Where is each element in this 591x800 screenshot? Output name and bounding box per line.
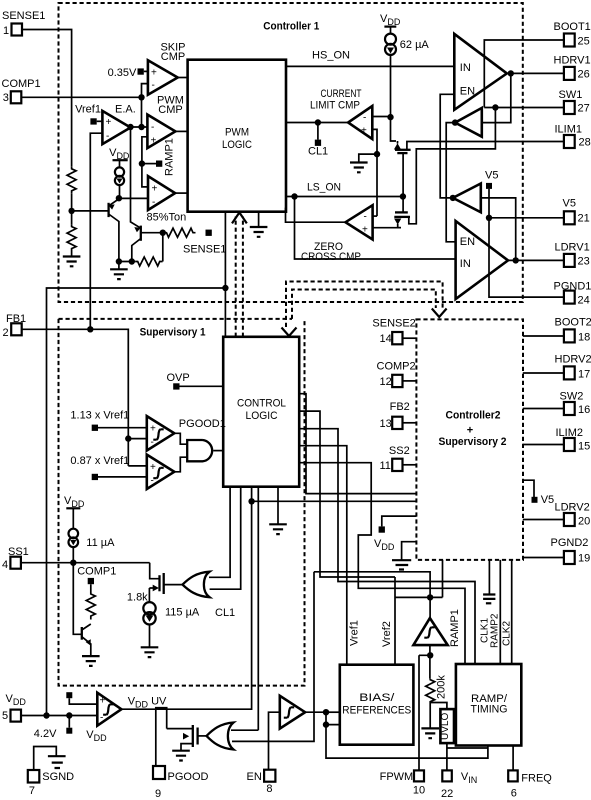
transistor Q1	[107, 203, 109, 217]
dashed bus to Controller2 (horizontal pair)	[286, 282, 443, 328]
wire control logic out 3	[299, 429, 475, 664]
svg-text:+: +	[467, 425, 473, 437]
svg-text:CL1: CL1	[308, 146, 328, 158]
svg-text:Supervisory 2: Supervisory 2	[439, 436, 507, 448]
wire 0.35V to skip cmp	[144, 70, 148, 72]
BIAS/REFERENCES block	[340, 665, 414, 745]
wire Q1/Q2 common to ground + resistor	[119, 261, 136, 263]
wire HDRV1 to INV1 input	[482, 73, 511, 122]
svg-text:+: +	[361, 126, 367, 137]
wire Q2 base to SENSE1 node	[141, 232, 165, 234]
wire EN pin to buffer	[269, 712, 280, 770]
net SENSE1 square	[206, 230, 212, 236]
svg-text:PGOOD1: PGOOD1	[179, 418, 226, 430]
gate OR PGOOD	[207, 723, 234, 750]
svg-text:V5: V5	[563, 198, 576, 210]
ground Q3	[82, 656, 100, 666]
wire control logic out 2	[299, 411, 395, 665]
svg-text:11 µA: 11 µA	[86, 537, 115, 549]
wire FPWM riser	[419, 655, 430, 770]
svg-text:3: 3	[3, 92, 9, 104]
inverter U-INV2 (LDRV sense)	[453, 184, 481, 213]
svg-text:CMP: CMP	[158, 104, 182, 116]
node SW1	[492, 104, 498, 110]
svg-text:LS_ON: LS_ON	[307, 181, 341, 193]
ground droop network	[118, 262, 120, 270]
svg-text:EN: EN	[460, 85, 475, 97]
svg-text:COMP1: COMP1	[2, 78, 41, 90]
svg-text:V5: V5	[485, 170, 498, 182]
wire BOOT2 stub	[523, 335, 564, 337]
svg-text:15: 15	[578, 441, 590, 453]
node COMP1/EA junction	[138, 94, 144, 100]
wire COMP1 node to E.A. output	[141, 97, 143, 127]
buffer RAMP1 (points up)	[413, 618, 447, 645]
svg-text:CL1: CL1	[215, 607, 235, 619]
wire 62uA down to FET	[391, 55, 397, 141]
wire INV1 out to EN of low driver	[446, 123, 455, 242]
svg-text:62 µA: 62 µA	[400, 39, 430, 51]
transistor Q3 (SS discharge)	[81, 627, 83, 640]
node control logic riser	[222, 285, 228, 291]
svg-text:V5: V5	[541, 494, 554, 506]
node FB1/EA feedback	[87, 326, 93, 332]
arrow into Controller2 top	[432, 309, 447, 318]
svg-text:85%Ton: 85%Ton	[147, 212, 187, 224]
svg-text:-: -	[151, 122, 154, 133]
svg-text:TIMING: TIMING	[471, 704, 508, 716]
svg-text:7: 7	[29, 785, 35, 797]
svg-text:+: +	[150, 424, 156, 435]
svg-text:2: 2	[3, 327, 9, 339]
svg-text:23: 23	[578, 256, 590, 268]
svg-text:CURRENT: CURRENT	[321, 88, 362, 100]
comparator UVP CMP (0.87)	[147, 455, 175, 489]
wire CLK2 from Controller2	[511, 560, 513, 664]
wire PGND1 from driver ground	[489, 218, 564, 297]
wire zero cross + input to FET source	[373, 227, 401, 229]
net 4.2V square	[66, 692, 72, 698]
wire V5 to pin	[489, 189, 564, 218]
wire RAMP1 vertical to PWM CMP + and 85% cmp +	[142, 137, 148, 187]
svg-text:21: 21	[578, 213, 590, 225]
svg-text:8: 8	[266, 783, 272, 795]
svg-text:REFERENCES: REFERENCES	[342, 705, 411, 717]
current source I-115uA	[148, 588, 150, 602]
svg-text:COMP1: COMP1	[77, 566, 116, 578]
wire E.A. output down to Q2	[131, 127, 141, 228]
svg-text:BOOT1: BOOT1	[554, 21, 591, 33]
svg-text:5: 5	[2, 710, 8, 722]
svg-text:22: 22	[441, 788, 453, 800]
ground current limit	[359, 154, 377, 162]
svg-text:+: +	[106, 117, 112, 128]
Controller2 + Supervisory 2 dashed box	[416, 319, 523, 560]
svg-text:LIMIT CMP: LIMIT CMP	[310, 100, 360, 112]
wire maze horizontal to buffer	[314, 572, 430, 618]
ground hook at Controller2	[402, 542, 417, 560]
svg-text:BIAS/: BIAS/	[359, 692, 395, 704]
wire UV node to Controller2	[252, 500, 417, 502]
svg-text:19: 19	[578, 553, 590, 565]
resistor 200k	[426, 679, 435, 703]
wire LDRV1 output	[508, 259, 564, 261]
svg-text:+: +	[362, 225, 368, 236]
wire current limit output to PWM LOGIC	[286, 122, 348, 124]
wire maze to buffer input 2	[395, 560, 443, 597]
svg-text:11: 11	[380, 460, 391, 472]
wire Vref1 to E.A. +	[97, 120, 103, 122]
wire control logic bottom to PGOOD gate	[257, 487, 259, 731]
inverter U-INV1 (HDRV sense)	[455, 108, 482, 137]
svg-text:4.2V: 4.2V	[34, 728, 57, 740]
wire HDRV2 stub	[523, 372, 564, 374]
wire zero cross output to PWM LOGIC	[286, 208, 346, 223]
svg-text:ILIM1: ILIM1	[555, 124, 583, 136]
svg-text:PWM: PWM	[225, 127, 249, 139]
svg-text:Controller2: Controller2	[446, 409, 501, 421]
wire control logic out 1	[299, 394, 416, 494]
power VDD hook at Controller2	[382, 516, 417, 526]
comparator 85%Ton CMP	[148, 176, 175, 210]
wire LS_ON	[286, 196, 403, 198]
node INV1 out	[452, 119, 458, 125]
svg-text:CROSS CMP: CROSS CMP	[301, 251, 361, 263]
current source I-62uA	[390, 27, 392, 34]
svg-text:HDRV1: HDRV1	[554, 55, 591, 67]
svg-text:Vref1: Vref1	[349, 620, 361, 646]
net VDD square below	[68, 716, 70, 728]
wire OVP to control logic	[180, 385, 224, 387]
wire LDRV2 stub	[523, 519, 564, 521]
wire E.A. inverting feedback	[90, 133, 102, 329]
svg-text:FPWM: FPWM	[380, 771, 414, 783]
svg-text:IN: IN	[460, 258, 471, 270]
wire BOOT1	[484, 40, 564, 108]
svg-text:Controller 1: Controller 1	[263, 21, 319, 33]
svg-text:LOGIC: LOGIC	[246, 410, 278, 422]
svg-text:-: -	[364, 212, 367, 223]
wire LS_ON drop to IN of low driver	[295, 197, 456, 260]
svg-text:6: 6	[511, 788, 517, 800]
svg-text:EN: EN	[247, 771, 262, 783]
wire E.A. output to PWM CMP	[131, 126, 148, 128]
resistor R-sense1 (to SENSE1 square)	[165, 228, 196, 237]
svg-text:RAMP1: RAMP1	[449, 609, 461, 647]
transistor M1 (high sample FET)	[394, 143, 401, 149]
wire HDRV1 output	[507, 72, 564, 74]
wire zero cross - input	[373, 215, 377, 217]
svg-text:14: 14	[380, 333, 392, 345]
wire control logic to PWM logic vertical	[224, 212, 226, 337]
wire SENSE1 to divider	[22, 30, 72, 167]
transistor Q2	[140, 226, 142, 241]
svg-text:RAMP1: RAMP1	[164, 138, 176, 176]
svg-text:20: 20	[578, 516, 590, 528]
wire COMP1	[21, 96, 141, 98]
svg-text:18: 18	[578, 332, 590, 344]
svg-text:+: +	[151, 68, 157, 79]
net COMP1 square over resistor	[88, 578, 94, 584]
wire control logic out 5	[299, 463, 465, 664]
wire SS1	[21, 562, 150, 564]
svg-text:9: 9	[155, 788, 161, 800]
svg-text:E.A.: E.A.	[115, 104, 136, 116]
wire EN to ramp/timing (second)	[326, 725, 488, 748]
wire EN to BIAS	[326, 711, 340, 713]
wire control logic bottom UV riser	[121, 487, 251, 710]
svg-text:SGND: SGND	[42, 771, 74, 783]
svg-text:1.13 x Vref1: 1.13 x Vref1	[70, 410, 129, 422]
wire RAMP2 from Controller2	[499, 560, 501, 664]
svg-text:LDRV1: LDRV1	[555, 242, 590, 254]
wire divider mid to Q1 base	[72, 210, 109, 212]
wire SKIP CMP inverting from COMP1 node	[142, 84, 148, 98]
comparator OVP CMP (1.13)	[147, 416, 175, 450]
wire buffer output	[429, 645, 431, 679]
svg-text:Vref2: Vref2	[381, 621, 393, 647]
wire FB1 to window comparators	[128, 439, 147, 466]
svg-text:+: +	[150, 462, 156, 473]
svg-text:10: 10	[413, 784, 425, 796]
wire SW2 stub	[523, 408, 564, 410]
svg-text:24: 24	[578, 295, 590, 307]
PWM LOGIC block U-PWM	[188, 60, 286, 212]
wire control logic bottom 2 to CL1 gate	[210, 487, 241, 590]
wire 85% cmp output	[175, 192, 188, 194]
svg-text:4: 4	[2, 559, 8, 571]
current source I-11uA	[72, 508, 74, 529]
node RAMP1	[139, 160, 145, 166]
wire EN buffer output	[305, 712, 488, 758]
wire VDD pin to UV comparator	[21, 715, 97, 717]
gate OR CL1	[183, 572, 210, 598]
wire SKIP CMP output	[178, 77, 188, 79]
wire PGND2 stub	[524, 557, 564, 559]
transistor M2 (low sample FET)	[402, 197, 404, 213]
svg-text:-: -	[152, 80, 155, 91]
svg-text:FREQ: FREQ	[521, 773, 552, 785]
wire EN of high driver from INV2 out	[440, 94, 454, 198]
capacitor CLK	[483, 595, 495, 599]
node V5 square right (near LDRV2)	[523, 480, 534, 497]
svg-text:PGOOD: PGOOD	[168, 771, 209, 783]
svg-text:EN: EN	[460, 236, 475, 248]
CONTROL LOGIC block	[223, 337, 299, 487]
svg-text:26: 26	[578, 69, 590, 81]
svg-text:CONTROL: CONTROL	[237, 397, 286, 409]
net RAMP1 square	[156, 161, 162, 167]
svg-text:OVP: OVP	[167, 372, 190, 384]
net CL1 square	[317, 123, 319, 140]
svg-text:Vref1: Vref1	[75, 104, 101, 116]
RAMP/TIMING block	[456, 664, 521, 746]
svg-text:200k: 200k	[436, 675, 448, 699]
current source I-85 (to Q1)	[119, 160, 121, 167]
driver U-LDRV (low side)	[456, 221, 508, 299]
net 0.35V square	[138, 68, 144, 74]
wire M1 drain to ILIM1	[407, 142, 564, 150]
wire CLK1 from Controller2	[488, 560, 490, 594]
buffer EN	[280, 696, 305, 729]
ground SGND	[48, 756, 66, 768]
svg-text:-: -	[363, 113, 366, 124]
svg-text:CLK2: CLK2	[502, 621, 513, 646]
ground control logic	[277, 487, 279, 524]
wire FB1	[22, 329, 129, 466]
svg-text:COMP2: COMP2	[377, 361, 416, 373]
wire HS_ON	[286, 65, 454, 67]
svg-text:0.87 x Vref1: 0.87 x Vref1	[70, 455, 129, 467]
wire INV2 input from LDRV1	[481, 198, 516, 261]
wire droop resistor up to SENSE1 row	[162, 233, 164, 262]
ground under PWM LOGIC	[258, 212, 260, 227]
svg-text:28: 28	[579, 137, 591, 149]
node VDD wire dots	[43, 712, 49, 718]
svg-text:CMP: CMP	[161, 51, 185, 63]
ground below divider	[63, 257, 81, 267]
gate AND PGOOD1	[174, 433, 187, 472]
svg-text:UVLO: UVLO	[440, 713, 451, 740]
driver U-HDRV (high side)	[454, 34, 507, 110]
wire current limit - input from 62uA node	[372, 116, 390, 119]
svg-text:FB2: FB2	[390, 401, 410, 413]
svg-text:HDRV2: HDRV2	[555, 354, 591, 366]
node divider mid	[71, 193, 73, 224]
wire SGND hook	[34, 747, 57, 771]
wire PGOOD gate bottom input	[232, 572, 314, 742]
svg-text:SENSE1: SENSE1	[2, 10, 45, 22]
svg-text:27: 27	[578, 103, 590, 115]
svg-text:SS2: SS2	[389, 445, 410, 457]
svg-text:1.8k: 1.8k	[127, 592, 148, 604]
resistor R-sense-bot (SENSE1 divider lower)	[67, 224, 76, 256]
transistor M3 (SS clamp FET)	[149, 563, 159, 588]
Controller 1 dashed boundary box	[59, 3, 523, 302]
svg-text:LOGIC: LOGIC	[222, 139, 252, 151]
resistor R-comp1	[86, 584, 95, 619]
node E.A. output	[127, 124, 133, 130]
wire PGOOD pin riser	[156, 708, 181, 766]
svg-text:-: -	[152, 197, 155, 208]
svg-text:SENSE2: SENSE2	[372, 318, 415, 330]
wire VDD sense riser	[47, 288, 226, 716]
wire 11uA down to Q3 base	[73, 563, 82, 635]
arrow into CONTROL LOGIC top	[282, 328, 297, 337]
wire 200k to ground	[429, 703, 431, 729]
ground 115uA	[141, 647, 159, 657]
wire PWM CMP output	[175, 130, 187, 132]
wire current limit + input to gnd rail	[372, 129, 377, 216]
UVLO block	[430, 703, 447, 710]
comparator VDD UV	[97, 693, 121, 726]
svg-text:SW2: SW2	[560, 391, 584, 403]
svg-text:RAMP2: RAMP2	[490, 613, 501, 648]
node Q1 emitter to ground rail	[116, 258, 122, 264]
svg-text:+: +	[152, 184, 158, 195]
resistor R-sense-top (SENSE1 divider upper)	[67, 166, 76, 193]
node FB1 comparator junction	[125, 435, 131, 441]
svg-text:13: 13	[380, 418, 392, 430]
wire control logic out 4 (Vref1)	[299, 446, 347, 665]
svg-text:+: +	[100, 696, 106, 707]
net Vref1 square	[90, 118, 96, 124]
svg-text:PGND2: PGND2	[551, 537, 589, 549]
resistor R-droop (horizontal)	[136, 257, 163, 266]
wire PGOOD gate top input	[231, 729, 258, 731]
ground 200k	[421, 728, 439, 738]
svg-text:-: -	[106, 131, 109, 142]
wire UVLO to VIN pin	[446, 743, 448, 770]
comparator ZERO CROSS CMP	[346, 205, 373, 239]
transistor M4 (PGOOD pulldown)	[198, 735, 207, 737]
svg-text:25: 25	[578, 36, 590, 48]
node SS1/11uA	[70, 560, 76, 566]
svg-text:-: -	[100, 713, 103, 724]
dashed bus CONTROL LOGIC to PWM LOGIC (up arrow)	[236, 217, 243, 337]
svg-text:12: 12	[380, 376, 392, 388]
ground M4	[172, 751, 190, 761]
wire AND out to bubble	[213, 450, 223, 452]
svg-text:115 µA: 115 µA	[165, 607, 200, 619]
wire FREQ from RAMP/TIMING	[512, 746, 514, 771]
svg-text:0.35V: 0.35V	[108, 67, 137, 79]
svg-text:IN: IN	[460, 62, 471, 74]
svg-text:+: +	[151, 136, 157, 147]
wire ILIM2 stub	[523, 444, 564, 446]
Supervisory 1 dashed boundary box	[59, 319, 305, 686]
svg-text:SENSE1: SENSE1	[183, 244, 226, 256]
svg-text:SW1: SW1	[559, 89, 583, 101]
svg-text:BOOT2: BOOT2	[555, 317, 591, 329]
wire current source to 85% cmp minus	[119, 197, 148, 199]
node 85% cmp minus / Q1 emitter	[116, 195, 122, 201]
wire control logic bottom 1 to CL1 gate	[209, 487, 230, 578]
svg-text:Supervisory 1: Supervisory 1	[140, 327, 206, 339]
svg-text:17: 17	[578, 369, 590, 381]
svg-text:LDRV2: LDRV2	[555, 502, 590, 514]
svg-text:HS_ON: HS_ON	[312, 50, 350, 62]
svg-text:16: 16	[578, 404, 590, 416]
svg-text:1: 1	[3, 25, 9, 37]
